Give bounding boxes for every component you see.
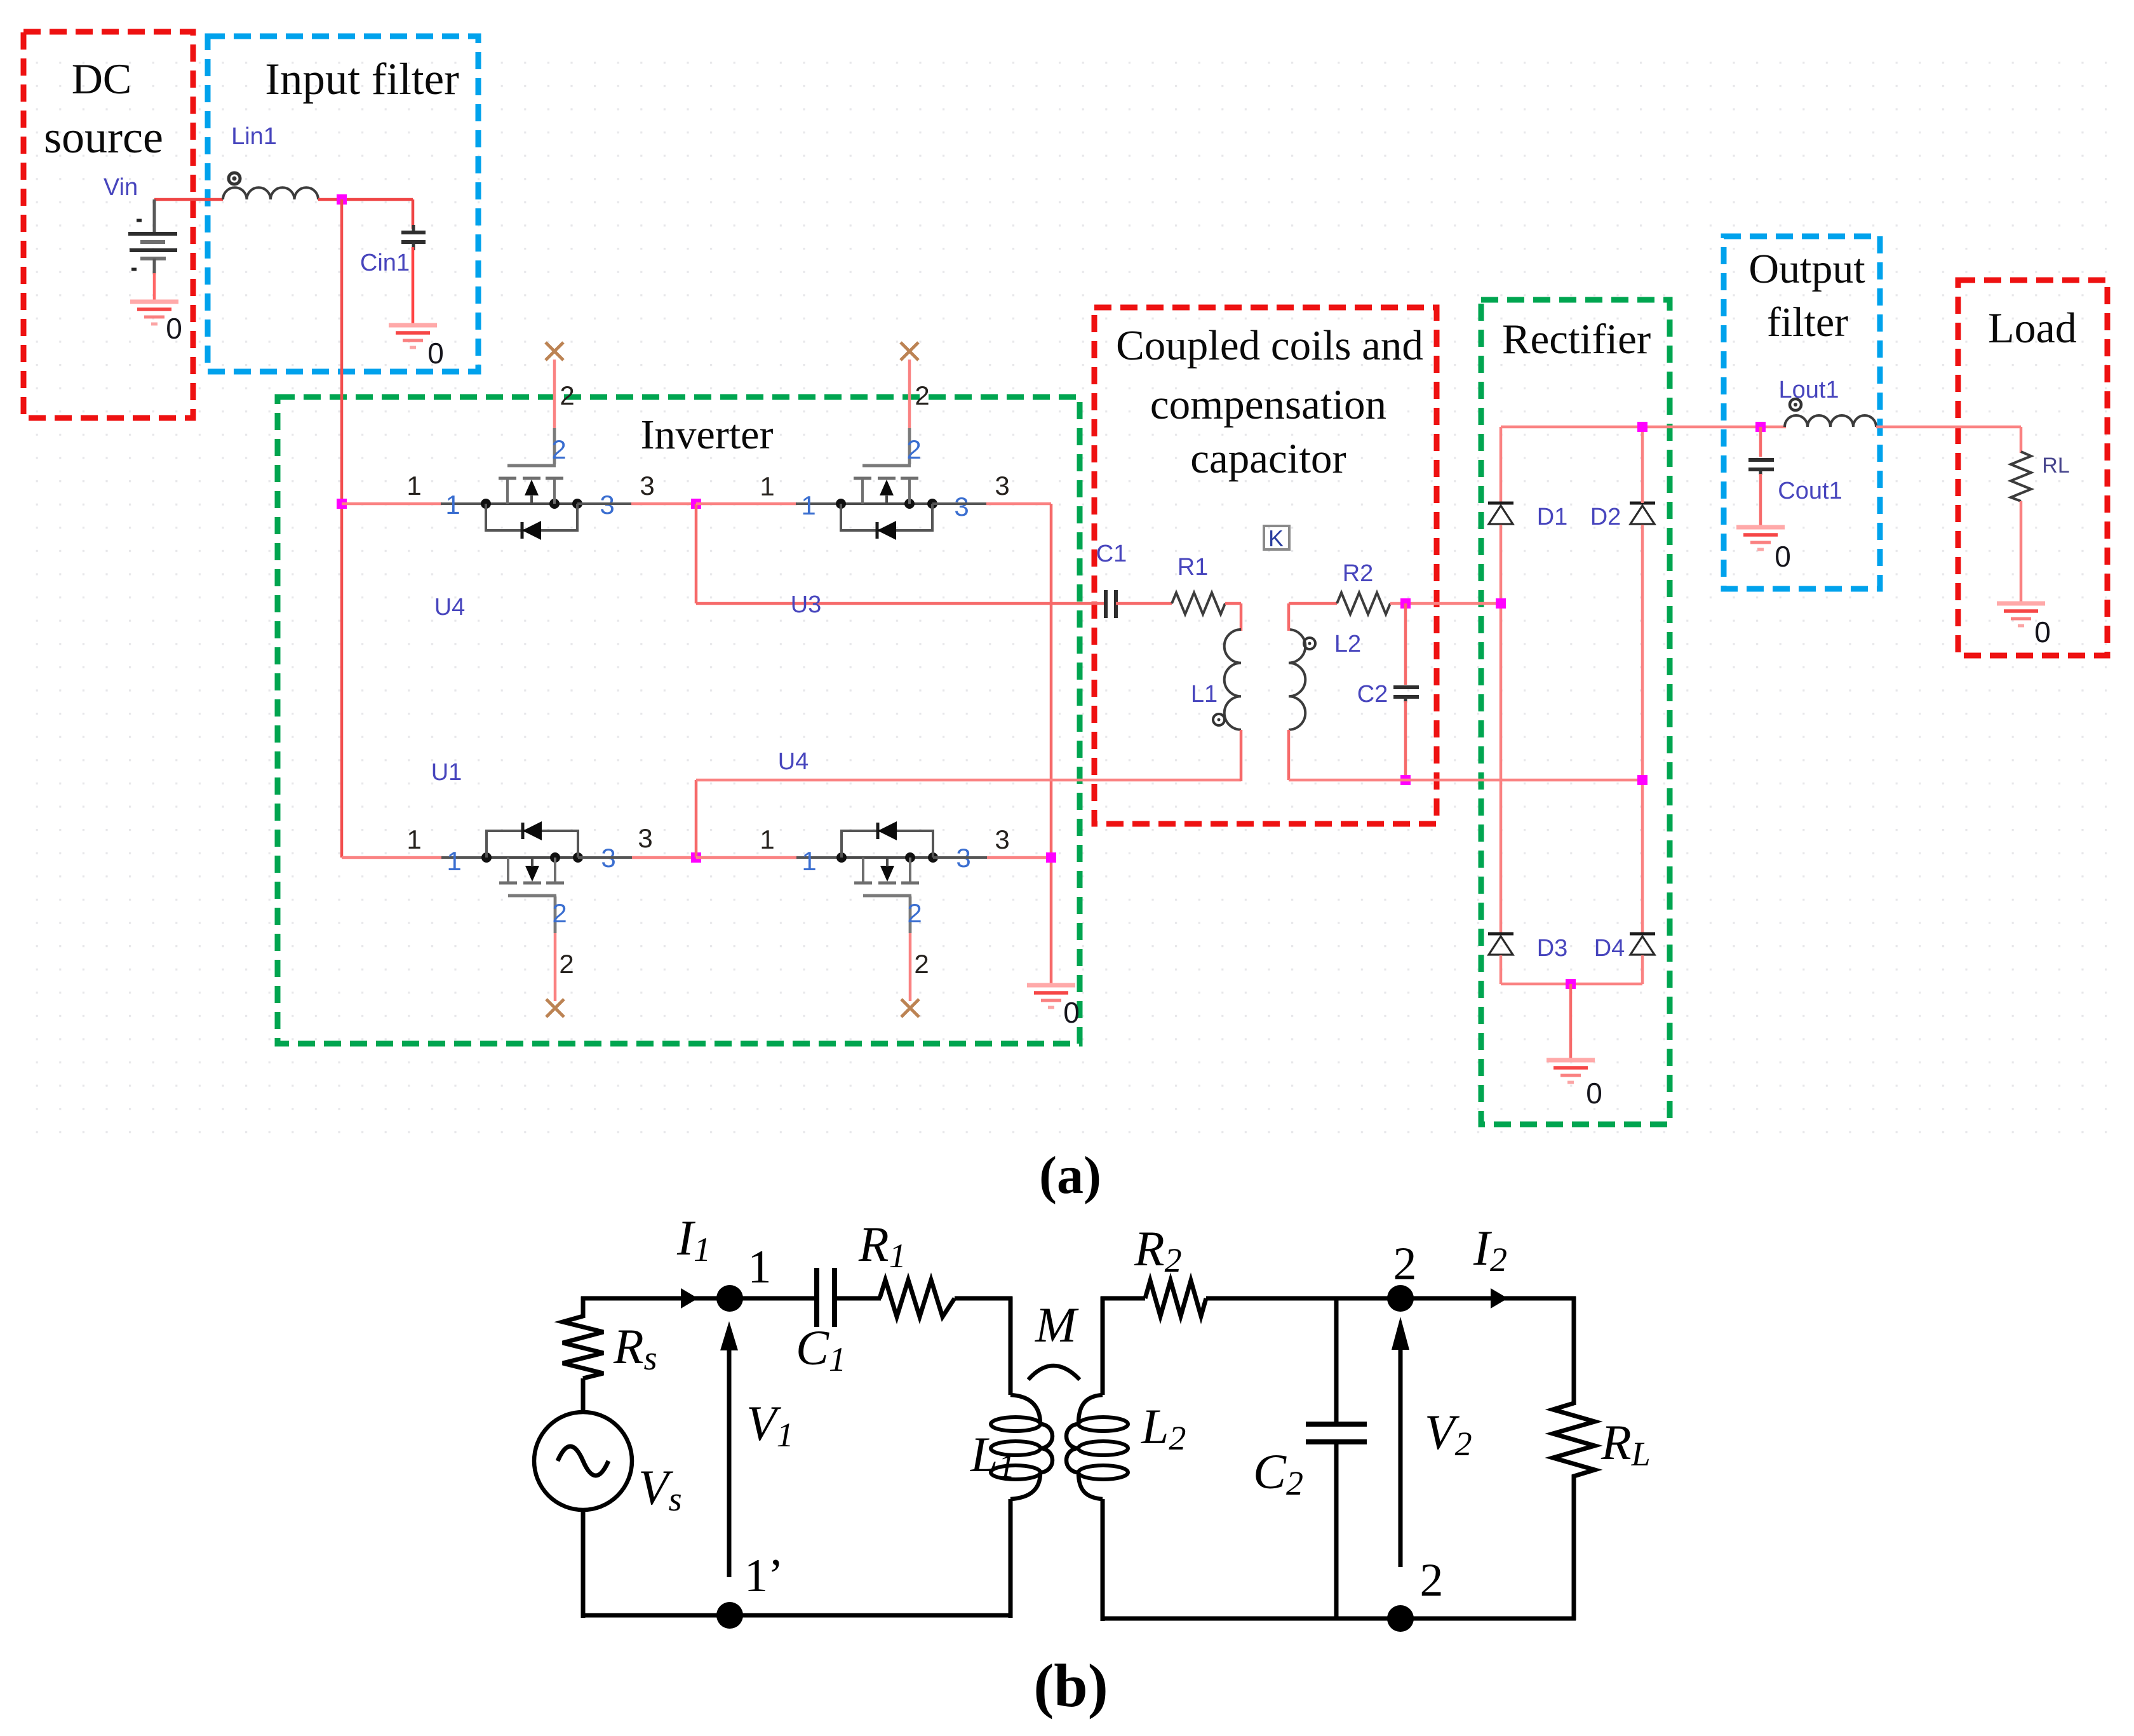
wire rail to U4 pin1 [342,502,442,506]
svg-text:L1: L1 [1191,681,1218,708]
inductor L1 (b) [991,1395,1052,1618]
wire left rail top (b) [581,1296,586,1318]
wire L2 bottom rail [1289,730,1642,780]
wire right branch upper [1641,427,1644,503]
wire b top-left [581,1296,819,1301]
wire U4 output up-right to L1 bottom [696,780,1241,858]
coupling M arc [1028,1366,1080,1380]
node right rail lower junction [1046,852,1056,863]
resistor R2 [1337,593,1390,614]
svg-text:(a): (a) [1039,1146,1101,1205]
diode D4 [1630,934,1655,955]
svg-text:0: 0 [1775,540,1791,573]
svg-text:R2: R2 [1343,560,1374,587]
no-connect X U3 [901,342,918,360]
svg-text:Output: Output [1748,246,1865,292]
ground 0 (load) [1997,603,2045,626]
inductor L2 (b) [1066,1296,1128,1621]
svg-text:capacitor: capacitor [1190,435,1346,482]
svg-text:1’: 1’ [744,1550,784,1602]
node 1' [716,1602,743,1629]
node rail upper junction [337,499,347,509]
Output filter box [1724,236,1880,589]
svg-text:0: 0 [1586,1077,1602,1110]
wire Vs to bottom (b) [581,1510,586,1618]
svg-text:Inverter: Inverter [641,412,774,458]
pin 2 wire U3 [908,360,911,464]
wire R1 to L1 [1225,603,1241,631]
wire U3 pin3 to right rail [932,502,1051,505]
wire RL to ground [2020,501,2023,604]
svg-text:2: 2 [552,898,567,928]
Inverter box [278,397,1080,1044]
node 1 [716,1285,743,1312]
svg-text:Input filter: Input filter [265,55,459,104]
svg-text:L2: L2 [1334,631,1361,657]
svg-text:M: M [1035,1297,1079,1352]
inductor Lin1 [223,173,318,199]
ground 0 (output filter) [1736,527,1785,549]
svg-text:(b): (b) [1033,1652,1108,1719]
svg-text:D1: D1 [1537,504,1568,530]
resistor RL [2011,452,2031,501]
svg-text:source: source [44,112,163,163]
svg-text:0: 0 [1063,996,1080,1029]
wire right rail vertical [1050,504,1053,986]
svg-text:Coupled coils and: Coupled coils and [1116,322,1423,369]
svg-text:D3: D3 [1537,935,1568,962]
dot L2 [1304,638,1315,649]
svg-text:D2: D2 [1590,504,1621,530]
svg-text:filter: filter [1767,299,1848,346]
capacitor C1 (b) [817,1268,835,1327]
svg-text:compensation: compensation [1150,381,1386,428]
svg-text:3: 3 [995,471,1009,501]
wire Rs to Vs [581,1378,586,1413]
ground 0 (input filter) [389,325,437,347]
svg-text:2: 2 [906,434,921,464]
svg-text:2: 2 [551,434,566,464]
svg-text:Cout1: Cout1 [1778,478,1842,504]
wire rail to U1 pin1 [342,856,487,859]
resistor RL (b) [1553,1403,1595,1489]
wire U4b pin3 to right rail [933,856,1051,859]
transistor U4b (lower-right MOSFET) [836,821,938,933]
svg-text:Cin1: Cin1 [360,250,410,276]
svg-text:2: 2 [1420,1554,1444,1606]
no-connect X U4b [901,999,919,1017]
node D2 top [1637,422,1647,432]
wire junction to U3 pin1 [696,502,841,506]
wire b right vertical bottom [1572,1489,1576,1620]
svg-text:1: 1 [802,846,816,876]
wire C2 bottom [1404,701,1407,780]
svg-text:K: K [1268,525,1284,551]
wire Vin to ground [153,273,156,302]
wire U4 pin3 to mid junction [577,502,696,505]
resistor R2 (b) [1145,1281,1206,1316]
wire C1 to R1 [1116,602,1172,605]
svg-text:U4: U4 [434,594,466,621]
arrow V1 [720,1321,738,1577]
svg-text:2: 2 [559,949,574,979]
source Vs [534,1412,632,1510]
wire L1 bottom [1240,730,1243,781]
svg-text:3: 3 [954,492,969,521]
svg-text:0: 0 [166,312,182,345]
no-connect X U1 [546,999,564,1017]
node C2 top junction [1400,598,1411,609]
node output filter junction [1755,422,1766,432]
wire Lin1 to junction [318,198,413,201]
no-connect X U4 [546,342,563,360]
arrow I1 [681,1288,698,1309]
wire L2 top to R2 [1289,603,1337,631]
node junction input [337,194,347,205]
Rectifier box [1481,300,1670,1124]
wire R2 to RL (b) [1206,1296,1576,1301]
DC source box [23,32,193,418]
svg-text:1: 1 [760,471,774,501]
capacitor Cout1 [1748,460,1774,475]
svg-text:2: 2 [914,949,929,979]
wire R2 to rectifier [1390,602,1501,605]
wire b bottom-left rail [581,1613,1012,1618]
svg-text:Lout1: Lout1 [1778,377,1839,403]
node mid upper junction [691,499,701,509]
svg-text:Rectifier: Rectifier [1502,316,1651,363]
svg-text:3: 3 [995,824,1009,854]
wire b bottom-right rail [1101,1617,1576,1621]
node rectifier left input [1496,598,1506,609]
wire R1 to corner (b) [955,1296,1012,1395]
resistor R1 (b) [880,1280,955,1317]
Coupled coils box [1094,307,1437,824]
node C2 bottom junction [1400,775,1411,785]
wire left branch middle [1500,525,1503,934]
arrow I2 [1491,1288,1508,1309]
wire rectifier ground stem [1569,984,1573,1061]
svg-text:Vin: Vin [104,174,138,201]
wire rectifier top rail [1501,426,1786,429]
wire b top-right [1101,1296,1145,1301]
wire Cin1 to ground [412,247,415,326]
Load box [1958,280,2107,656]
wire U3 output down-right to C1 [696,504,1106,603]
svg-text:RL: RL [2042,454,2069,478]
ground 0 (inverter) [1027,985,1075,1007]
svg-text:Lin1: Lin1 [231,123,277,150]
svg-text:2: 2 [560,380,574,410]
svg-text:0: 0 [427,337,444,370]
capacitor C2 (b) [1306,1296,1367,1620]
svg-text:U4: U4 [778,748,809,775]
svg-text:1: 1 [760,824,774,854]
transistor U1 (lower-left MOSFET) [481,821,583,933]
wire U1 pin3 to mid junction [578,856,696,859]
wire C2 top [1404,603,1407,685]
svg-text:DC: DC [72,55,131,103]
wire C1 to R1 (b) [835,1296,881,1301]
wire rectifier bottom join [1501,955,1642,984]
inductor L2 [1289,629,1305,730]
resistor Rs [563,1316,603,1378]
pin 2 wire U4 [553,360,556,464]
ground 0 (rectifier) [1547,1060,1595,1082]
svg-text:U3: U3 [791,591,822,618]
svg-text:1: 1 [748,1241,772,1293]
arrow V2 [1392,1317,1409,1567]
svg-text:R1: R1 [1178,554,1209,581]
inductor Lout1 [1785,399,1876,427]
battery Vin [128,199,177,274]
svg-text:3: 3 [638,823,652,853]
dot L1 [1213,714,1225,725]
svg-text:1: 1 [446,846,461,876]
pin 2 wire U4b [909,896,912,1001]
diode D1 [1488,503,1513,524]
svg-text:1: 1 [445,490,460,520]
capacitor C1 [1106,590,1116,618]
svg-text:1: 1 [801,490,815,520]
svg-text:C2: C2 [1357,681,1388,708]
node rectifier bottom [1566,979,1576,989]
svg-text:0: 0 [2034,616,2051,649]
svg-text:3: 3 [640,471,654,501]
wire b right vertical top [1572,1296,1576,1405]
wire Cout1 to ground [1759,474,1762,528]
svg-text:2: 2 [907,898,922,928]
wire right branch middle [1641,525,1644,934]
inductor L1 [1225,629,1241,730]
ground 0 (DC source) [130,302,178,324]
wire to Cin1 [412,199,415,229]
node 2 bottom [1387,1605,1414,1632]
svg-text:1: 1 [406,471,421,501]
node 2 top [1387,1285,1414,1312]
wire Lout1 to load [1876,427,2021,453]
wire Cout1 top [1759,427,1762,457]
transistor U4 (upper-left MOSFET) [481,428,582,540]
svg-text:2: 2 [915,380,929,410]
wire junction to U4b pin1 [696,856,842,859]
node mid lower junction [691,852,701,863]
wire left branch upper [1500,427,1503,503]
svg-text:1: 1 [406,824,421,854]
svg-text:C1: C1 [1096,541,1127,567]
capacitor Cin1 [401,225,426,250]
svg-text:Load: Load [1988,304,2077,352]
wire junction down rail [340,199,344,858]
transistor U3 (upper-right MOSFET) [836,428,937,540]
node rectifier right input [1637,775,1647,785]
coupling K [1264,525,1289,551]
Input filter box [208,36,478,372]
resistor R1 [1172,593,1225,614]
diode D3 [1488,934,1513,955]
svg-text:2: 2 [1393,1238,1417,1290]
svg-text:U1: U1 [431,759,462,786]
pin 2 wire U1 [554,896,557,1001]
diode D2 [1630,503,1655,524]
capacitor C2 [1393,687,1419,703]
svg-text:D4: D4 [1594,935,1625,962]
wire Vin top [154,198,223,201]
